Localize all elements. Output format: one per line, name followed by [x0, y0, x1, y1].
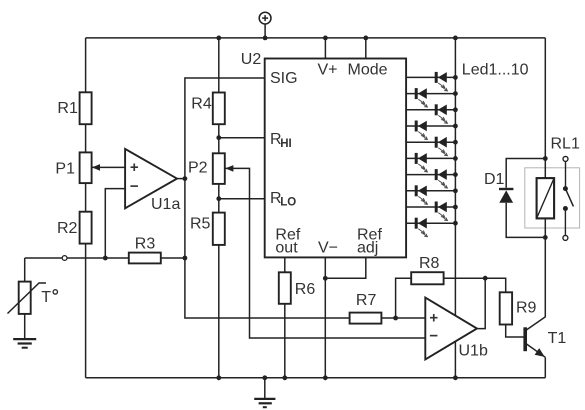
wire Led9 row [406, 206, 455, 208]
op-amp U1b [425, 298, 477, 360]
wire U1a output stub [177, 178, 185, 180]
wire R7 to U1b + input [381, 317, 425, 319]
junction R7 R8 node [393, 316, 398, 321]
junction R8 output node [483, 276, 488, 281]
ground thermistor [13, 314, 36, 348]
wire Led6 row [406, 157, 455, 159]
relay RL1 coil [537, 178, 555, 218]
wire R5 down to bottom rail [218, 245, 220, 378]
wire Led7 row [406, 174, 455, 176]
svg-text:R7: R7 [356, 292, 377, 309]
svg-text:R2: R2 [57, 220, 78, 237]
wire R3 to U1a output line [161, 257, 185, 259]
svg-text:RL1: RL1 [551, 135, 580, 152]
resistor R4 [213, 93, 225, 125]
svg-text:T1: T1 [548, 330, 567, 347]
wire D1 bottom branch [506, 203, 545, 238]
wire U1a inverting input feedback down to thermistor node [105, 189, 125, 258]
junction rail R5 [216, 375, 221, 380]
LED Led5 [436, 137, 447, 156]
svg-text:D1: D1 [484, 171, 505, 188]
wire P1 wiper to U1a + input [92, 166, 126, 168]
wire P2 wiper to U1b inverting input [225, 168, 425, 338]
svg-text:T: T [41, 289, 51, 306]
arrow P2 wiper [225, 165, 233, 172]
wire V+ pin stub [324, 38, 326, 59]
wire Mode pin stub [365, 38, 367, 59]
wire RHI pin [219, 137, 265, 139]
wire relay coil top [544, 159, 546, 179]
wire top V+ rail [86, 37, 546, 39]
wire Led8 row [406, 190, 455, 192]
svg-text:R3: R3 [135, 236, 156, 253]
wire R6 down to bottom rail [284, 304, 286, 378]
svg-text:R5: R5 [190, 216, 211, 233]
junction rail V- [323, 375, 328, 380]
svg-text:HI: HI [280, 138, 292, 150]
potentiometer P2 [213, 153, 225, 184]
wire R1 to P1 [85, 124, 87, 152]
wire D1 top branch [506, 159, 545, 188]
junction Ref adj V- [323, 276, 328, 281]
transistor T1 [525, 237, 545, 377]
potentiometer P1 [80, 152, 92, 183]
thermistor T [8, 258, 47, 314]
svg-text:+: + [429, 310, 438, 327]
svg-text:Mode: Mode [348, 62, 388, 79]
resistor R1 [80, 92, 92, 124]
wire R8 right to R9 [444, 278, 506, 292]
wire LED anode bus [454, 38, 456, 378]
svg-text:V−: V− [318, 239, 338, 256]
junction U1a output [183, 176, 188, 181]
svg-text:P1: P1 [55, 161, 75, 178]
svg-text:LO: LO [280, 197, 296, 209]
wire bottom ground rail [86, 377, 546, 379]
LED Led1 [436, 72, 447, 91]
junction Mode pin top rail [363, 36, 368, 41]
LED Led3 [436, 104, 447, 123]
junction U1a feedback node [103, 256, 108, 261]
junction rail R6 [282, 375, 287, 380]
power supply + terminal [259, 12, 271, 38]
junction bus top rail [453, 36, 458, 41]
svg-text:R6: R6 [295, 281, 316, 298]
LED Led7 [436, 169, 447, 188]
resistor R5 [213, 213, 225, 245]
junction relay top node [543, 156, 548, 161]
LED Led2 [416, 88, 427, 107]
svg-text:Led1...10: Led1...10 [462, 61, 529, 78]
relay RL1 outline box [525, 168, 580, 228]
svg-text:R8: R8 [419, 255, 440, 272]
svg-text:SIG: SIG [270, 70, 298, 87]
node thermistor wire [25, 257, 63, 259]
svg-text:P2: P2 [188, 160, 208, 177]
junction Led1 anode bus [453, 75, 458, 80]
wire right edge from top rail down to relay [544, 38, 546, 159]
svg-text:R9: R9 [516, 300, 537, 317]
resistor R9 [500, 292, 512, 324]
wire P2 to R5 [218, 184, 220, 213]
junction Led10 anode bus [453, 221, 458, 226]
junction Led8 anode bus [453, 188, 458, 193]
junction V+ pin top rail [323, 36, 328, 41]
wire Led3 row [406, 109, 455, 111]
junction Led6 anode bus [453, 156, 458, 161]
svg-text:U1a: U1a [151, 196, 180, 213]
resistor R8 [411, 272, 443, 284]
wire Ref adj pin to V- line [325, 257, 366, 278]
junction bus bottom rail [453, 375, 458, 380]
junction Led4 anode bus [453, 124, 458, 129]
svg-text:V+: V+ [318, 62, 338, 79]
svg-text:R4: R4 [191, 96, 212, 113]
resistor R2 [80, 212, 92, 244]
wire node to R3 [67, 257, 129, 259]
junction top rail R4 column [216, 36, 221, 41]
wire Led4 row [406, 125, 455, 127]
svg-text:−: − [429, 327, 438, 344]
junction dot power on top rail [263, 36, 268, 41]
wire Led5 row [406, 141, 455, 143]
LED Led6 [416, 153, 427, 172]
svg-text:R1: R1 [57, 100, 78, 117]
wire R4 to P2 [218, 124, 220, 153]
wire top rail down to R4 [218, 38, 220, 93]
wire Ref out pin to R6 [284, 257, 286, 272]
op-amp U1a [125, 149, 177, 208]
IC U2 box [265, 59, 406, 258]
wire R9 to T1 base [506, 325, 524, 338]
LED Led4 [416, 121, 427, 140]
junction RHI [216, 135, 221, 140]
wire U1a output up to SIG and down to R7 [185, 78, 350, 318]
LED Led8 [416, 185, 427, 204]
resistor R3 [129, 253, 161, 264]
svg-text:out: out [275, 239, 298, 256]
LED Led9 [436, 202, 447, 221]
wire Led10 row [406, 222, 455, 224]
wire U1b output up to R8 node [477, 278, 485, 328]
ground symbol bottom [254, 378, 275, 407]
svg-text:−: − [130, 178, 139, 195]
wire R8 left branch [396, 278, 412, 318]
relay RL1 contact [563, 156, 574, 240]
junction Led3 anode bus [453, 107, 458, 112]
junction rail ground [262, 375, 267, 380]
svg-text:+: + [130, 159, 139, 176]
wire RLO pin [219, 198, 265, 200]
svg-text:adj: adj [357, 239, 378, 256]
wire Led1 row [406, 76, 455, 78]
resistor R7 [350, 313, 382, 324]
wire P1 to R2 [85, 183, 87, 212]
LED Led10 [416, 218, 427, 237]
svg-text:U1b: U1b [459, 343, 488, 360]
junction RLO [216, 196, 221, 201]
junction R3 output line [183, 256, 188, 261]
diode D1 [499, 189, 513, 203]
junction Led7 anode bus [453, 172, 458, 177]
wire Led2 row [406, 93, 455, 95]
junction relay bottom node [543, 235, 548, 240]
wire relay coil bottom [544, 218, 546, 237]
svg-text:U2: U2 [241, 51, 262, 68]
arrow P1 wiper [92, 164, 100, 171]
wire V- pin down to bottom rail [324, 257, 326, 377]
wire left column from top rail to R1 [85, 38, 87, 92]
junction Led9 anode bus [453, 205, 458, 210]
resistor R6 [279, 272, 291, 304]
junction Led2 anode bus [453, 91, 458, 96]
connector open node [62, 256, 67, 261]
junction Led5 anode bus [453, 140, 458, 145]
wire R2 down to bottom rail [85, 244, 87, 378]
